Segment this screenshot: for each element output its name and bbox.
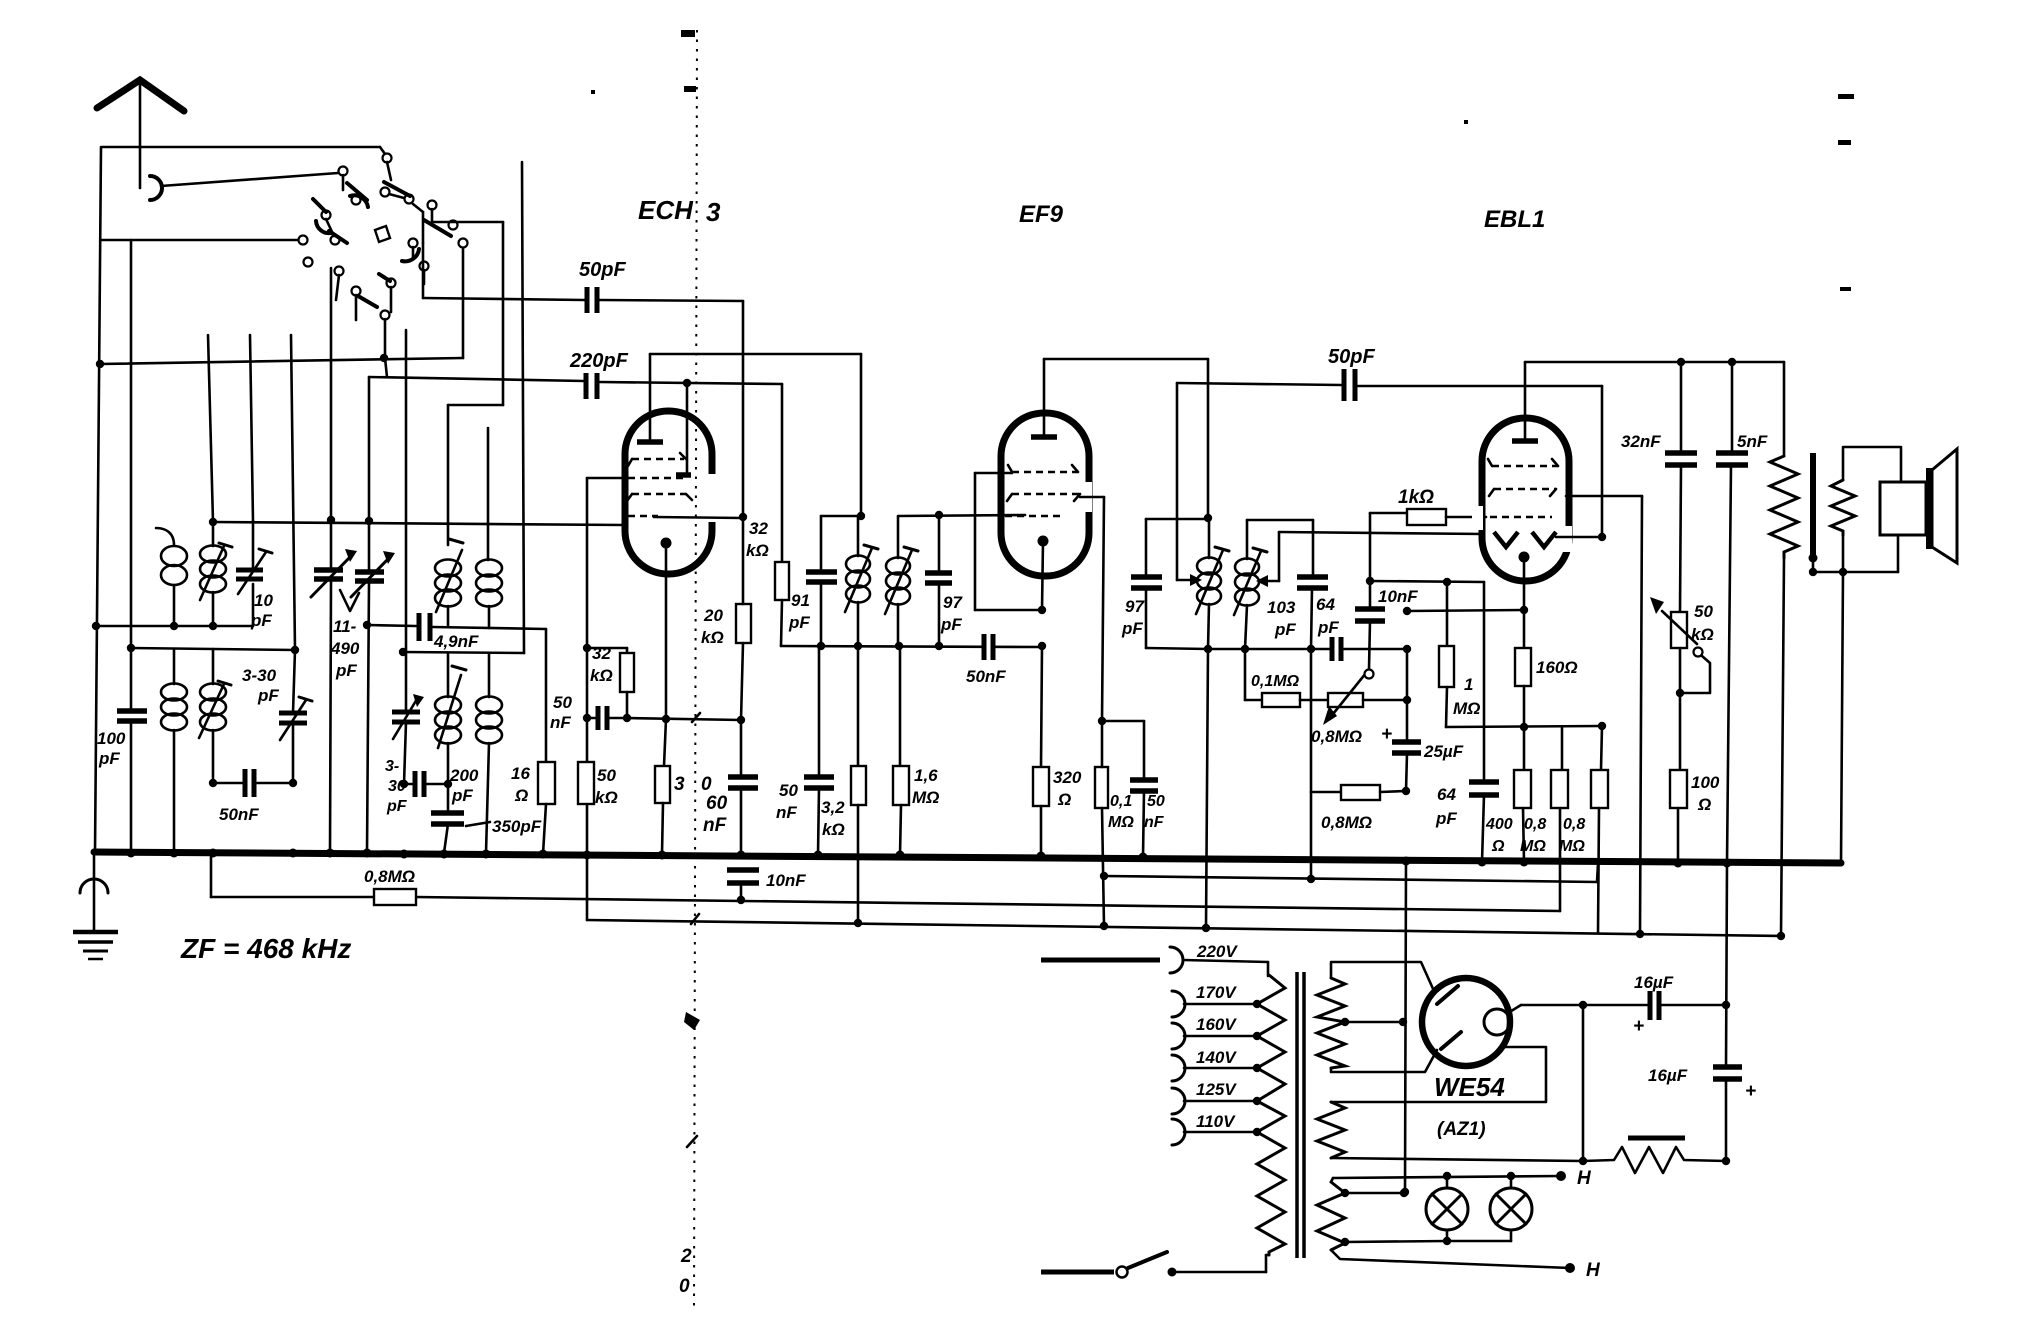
resistor 0,1M AF (1262, 693, 1328, 707)
label 320 Ohm EF9 (1053, 768, 1082, 809)
svg-text:+: + (1381, 724, 1392, 745)
svg-text:0,8: 0,8 (1563, 816, 1585, 833)
potentiometer 50k tone (1650, 597, 1710, 770)
wire: WE54 second anode loop (1331, 1047, 1546, 1102)
wire y=240 (101, 239, 298, 242)
wire: grid2 return (587, 478, 628, 855)
label 50nF IF1 bypass (776, 781, 798, 822)
svg-text:103: 103 (1267, 598, 1296, 617)
svg-text:50: 50 (553, 693, 572, 712)
wire y=364 (100, 358, 463, 364)
svg-text:50: 50 (779, 781, 798, 800)
node (1401, 1188, 1409, 1196)
svg-text:160Ω: 160Ω (1536, 658, 1578, 677)
node (1636, 930, 1644, 938)
svg-text:3-: 3- (385, 758, 399, 775)
svg-text:97: 97 (1125, 597, 1145, 616)
label 20kOhm (701, 606, 724, 647)
svg-text:pF: pF (98, 749, 120, 768)
label 32kOhm screen (590, 644, 613, 685)
node (399, 648, 407, 656)
wire: AVC rail R1 (211, 855, 1560, 911)
wire: 16 ohm feed (545, 629, 548, 762)
label 0,8MOhm bias2 (1559, 816, 1585, 855)
label 91pF (788, 591, 810, 632)
svg-text:+: + (1745, 1081, 1756, 1102)
wire: band switch vertical to 3-30pF trimmer (291, 335, 295, 650)
label 64pF tone (1435, 785, 1457, 828)
node (1520, 723, 1528, 731)
capacitor 5nF (1716, 362, 1748, 863)
capacitor 10nF AVC (727, 870, 759, 900)
label 32kOhm (746, 519, 769, 560)
wire: rectifier output vertical (1582, 1005, 1585, 1161)
svg-text:3-30: 3-30 (242, 666, 277, 685)
node (1204, 645, 1212, 653)
label 64pF coupling (1316, 595, 1339, 637)
label 0,8MOhm bias1 (1520, 816, 1546, 855)
node (739, 513, 747, 521)
capacitor 64pF coupling (1332, 637, 1407, 661)
node (1202, 924, 1210, 932)
IF transformer 2 secondary coil (1234, 520, 1267, 649)
speaker (1880, 449, 1957, 563)
label 50kOhm tone (1691, 602, 1714, 644)
node (1098, 717, 1106, 725)
node (444, 780, 452, 788)
switch contact circle (299, 236, 308, 245)
node (327, 516, 335, 524)
node (1403, 696, 1411, 704)
node (1722, 1157, 1730, 1165)
resistor 320 Ohm EF9 cathode (1033, 646, 1049, 856)
svg-text:0,1MΩ: 0,1MΩ (1251, 673, 1300, 690)
wire: lower coil top line y=649 (131, 648, 295, 650)
node (583, 714, 591, 722)
wire: screen rail R-A (1104, 864, 1598, 882)
capacitor 97pF IF2 (1131, 519, 1208, 649)
label 103pF (1267, 598, 1296, 639)
svg-text:MΩ: MΩ (1453, 699, 1480, 718)
svg-text:100: 100 (97, 729, 126, 748)
svg-text:1: 1 (1464, 675, 1473, 694)
svg-text:320: 320 (1053, 768, 1082, 787)
svg-text:110V: 110V (1196, 1112, 1236, 1131)
capacitor 350pF (431, 784, 490, 853)
wire: 50pF feed from switch (422, 243, 425, 298)
wire: switch feed up to contact (462, 247, 465, 358)
svg-text:140V: 140V (1196, 1048, 1237, 1067)
svg-text:MΩ: MΩ (1108, 814, 1134, 831)
svg-text:pF: pF (940, 615, 962, 634)
svg-text:10: 10 (254, 591, 273, 610)
mains tap 140V (1172, 1055, 1261, 1081)
page fold dotted line (679, 30, 700, 1310)
capacitor 97pF (IF1 secondary) (925, 515, 952, 646)
svg-text:400: 400 (1485, 816, 1513, 833)
wire: band switch vertical to antenna coil (208, 335, 213, 522)
svg-text:pF: pF (386, 798, 408, 815)
IF transformer 1 primary coil (845, 516, 878, 646)
label 200pF (449, 766, 479, 805)
bus junction nodes (127, 849, 1732, 868)
svg-text:16µF: 16µF (1648, 1066, 1688, 1085)
svg-text:0,8: 0,8 (1524, 816, 1546, 833)
antenna coil secondary (tuned) (200, 522, 232, 626)
svg-text:pF: pF (257, 686, 279, 705)
svg-text:pF: pF (1317, 618, 1339, 637)
resistor 1M (1439, 582, 1454, 727)
svg-text:10nF: 10nF (766, 871, 806, 890)
capacitor 220pF (369, 373, 782, 399)
wire: vertical x=131 to 100pF (130, 240, 133, 711)
svg-text:220pF: 220pF (569, 350, 629, 372)
svg-text:4,9nF: 4,9nF (433, 632, 479, 651)
svg-text:WE54: WE54 (1434, 1072, 1505, 1102)
wire: ECH3 grid1 top cap to IF (650, 354, 861, 516)
svg-text:nF: nF (703, 815, 728, 836)
trimmer 10pF (236, 521, 272, 594)
node (1728, 358, 1736, 366)
resistor 3.2k (851, 646, 866, 923)
svg-text:11-: 11- (333, 617, 357, 636)
oscillator coil upper-left (435, 539, 463, 627)
capacitor 25uF (1392, 649, 1421, 791)
mains tap 110V (1172, 1119, 1261, 1145)
resistor 160 Ohm (1515, 610, 1531, 727)
svg-text:50nF: 50nF (219, 805, 259, 824)
label 50kOhm (595, 766, 618, 807)
svg-text:nF: nF (776, 803, 797, 822)
svg-text:50nF: 50nF (966, 667, 1006, 686)
svg-text:nF: nF (1144, 814, 1165, 831)
tube ECH3 (625, 354, 743, 718)
node (1100, 922, 1108, 930)
svg-text:kΩ: kΩ (822, 820, 845, 839)
svg-text:0: 0 (701, 774, 712, 795)
resistor 32k screen (587, 648, 634, 718)
trimmer 3-30pF oscillator (392, 330, 424, 784)
svg-text:97: 97 (943, 593, 963, 612)
svg-text:ECH: ECH (638, 195, 694, 225)
svg-text:50pF: 50pF (1328, 346, 1375, 368)
wire: band switch vertical to 10pF trimmer (250, 335, 253, 521)
wire: HT centre tap to ground bus (1405, 861, 1406, 1192)
node (737, 896, 745, 904)
svg-text:64: 64 (1316, 595, 1335, 614)
capacitor 91pF (806, 516, 861, 646)
svg-text:1kΩ: 1kΩ (1398, 487, 1434, 508)
pilot lamp 1 (1426, 1172, 1468, 1245)
svg-text:50: 50 (1694, 602, 1713, 621)
wire: B+ top line y=362 (1525, 362, 1784, 456)
node (96, 360, 104, 368)
node (1579, 1157, 1587, 1165)
capacitor 50nF IF1 bypass (804, 646, 834, 855)
output transformer core (1809, 453, 1818, 563)
resistor 0,8M bias 1 (1551, 727, 1568, 911)
node (854, 919, 862, 927)
node (363, 621, 371, 629)
capacitor 64pF tone (1469, 582, 1499, 862)
svg-text:0,8MΩ: 0,8MΩ (1321, 813, 1372, 832)
resistor 50k (578, 762, 594, 804)
node (400, 780, 408, 788)
svg-text:160V: 160V (1196, 1015, 1237, 1034)
oscillator coil upper-right (476, 428, 502, 628)
capacitor 50nF screen bypass (1102, 721, 1158, 857)
label 1MOhm (1453, 675, 1480, 718)
capacitor 10nF AF (1355, 513, 1385, 669)
mains tap 160V (1172, 1023, 1261, 1049)
svg-text:10nF: 10nF (1378, 587, 1418, 606)
label 10pF (250, 591, 273, 630)
svg-text:H: H (1586, 1260, 1601, 1281)
svg-text:50pF: 50pF (579, 259, 626, 281)
tuning gang capacitor C1 (11-490pF) (311, 268, 357, 853)
svg-text:5nF: 5nF (1737, 432, 1768, 451)
tuning gang capacitor C2 (11-490pF) (351, 377, 395, 853)
svg-text:(AZ1): (AZ1) (1437, 1119, 1486, 1140)
wire: diode tap to EBL1 (1256, 532, 1484, 587)
rectifier tube WE54 (1422, 978, 1510, 1066)
node (1809, 568, 1817, 576)
mains switch (1041, 1252, 1269, 1278)
svg-text:3: 3 (706, 197, 721, 227)
switch contact circle (339, 167, 348, 176)
switch contact circle (459, 239, 468, 248)
wire: AVC bias line y=611 (1407, 610, 1524, 611)
svg-text:16µF: 16µF (1634, 973, 1674, 992)
svg-text:Ω: Ω (514, 786, 528, 805)
node (1839, 568, 1847, 576)
svg-text:490: 490 (330, 639, 360, 658)
label 320 (674, 774, 712, 795)
svg-text:170V: 170V (1196, 983, 1237, 1002)
oscillator coil lower-right (476, 653, 502, 853)
svg-text:0,8MΩ: 0,8MΩ (1311, 727, 1362, 746)
node (1402, 787, 1410, 795)
svg-text:50: 50 (597, 766, 616, 785)
svg-text:3: 3 (674, 774, 685, 795)
power transformer core (1297, 972, 1304, 1258)
svg-text:Ω: Ω (1697, 795, 1711, 814)
node (289, 779, 297, 787)
wire: cathode bias line y=727 (1446, 726, 1602, 727)
antenna coil primary (156, 528, 187, 626)
svg-text:kΩ: kΩ (746, 541, 769, 560)
node (209, 779, 217, 787)
node (1579, 1001, 1587, 1009)
node (1598, 533, 1606, 541)
wire: EBL1 grid2 to rail (1566, 496, 1642, 934)
svg-text:60: 60 (706, 793, 728, 814)
node (817, 642, 825, 650)
wire: antenna top line y=147 (102, 147, 385, 154)
svg-text:350pF: 350pF (492, 817, 542, 836)
power transformer rectifier filament winding (1317, 1102, 1583, 1161)
svg-text:50: 50 (1147, 793, 1165, 810)
capacitor 4.9nF (419, 613, 546, 641)
svg-text:200: 200 (449, 766, 479, 785)
node (380, 354, 388, 362)
pilot lamp 2 (1447, 1172, 1532, 1241)
svg-text:pF: pF (451, 786, 473, 805)
capacitor 103pF (1297, 577, 1328, 649)
label 60nF (703, 793, 728, 836)
node (1777, 932, 1785, 940)
label 3-30pF osc (385, 758, 408, 815)
wire: EF9 grid2 (975, 473, 1042, 610)
output transformer primary (1770, 456, 1798, 936)
node (1204, 514, 1212, 522)
svg-text:H: H (1577, 1168, 1592, 1189)
resistor 0,8M AVC filter (374, 889, 416, 905)
wire y=652 oscillator secondary top (403, 652, 524, 653)
switch contact circle (383, 154, 392, 163)
node (127, 644, 135, 652)
node (623, 714, 631, 722)
wire: bias rail R2 (587, 855, 1781, 936)
power transformer HT secondary (1317, 962, 1437, 1072)
capacitor 50nF (213, 769, 293, 797)
node (170, 622, 178, 630)
wire: IF2 secondary top bracket (1247, 520, 1313, 577)
node (737, 716, 745, 724)
node (92, 622, 100, 630)
wire: IF1 secondary top to EF9 grid (898, 515, 1025, 516)
coupling coil lower left (161, 649, 187, 853)
node (854, 642, 862, 650)
capacitor 32nF (1665, 362, 1697, 612)
svg-text:EBL1: EBL1 (1484, 206, 1545, 233)
resistor 20k (736, 518, 751, 720)
svg-text:91: 91 (791, 591, 810, 610)
capacitor 16uF second (1713, 863, 1742, 1161)
wire: left rail x=95 (95, 147, 101, 852)
tube EBL1 (1472, 362, 1572, 610)
node (1100, 872, 1108, 880)
wire: IF2 feed vertical x=1177 (1177, 383, 1202, 586)
wire: IF2 primary B+ drop (1206, 649, 1208, 928)
svg-text:MΩ: MΩ (1520, 838, 1546, 855)
mains tap 170V (1172, 991, 1261, 1017)
svg-text:kΩ: kΩ (595, 788, 618, 807)
trimmer 3-30pF (279, 650, 312, 783)
node (1520, 606, 1528, 614)
svg-text:32: 32 (592, 644, 611, 663)
node (1403, 645, 1411, 653)
node (1722, 1001, 1730, 1009)
tuned coil lower (with core arrow) (199, 649, 231, 783)
terminal H bottom (1565, 1260, 1601, 1281)
resistor 16 Ohm (538, 762, 555, 854)
resistor 0,8M bias 2 (1591, 726, 1608, 933)
label 1,6MOhm (912, 766, 939, 807)
node (1443, 578, 1451, 586)
svg-text:ZF = 468 kHz: ZF = 468 kHz (180, 933, 351, 964)
wire y=582 (1370, 581, 1484, 582)
svg-text:Ω: Ω (1491, 838, 1505, 855)
node (683, 379, 691, 387)
wire: 220V mains input (1041, 947, 1268, 976)
wire: 4.9nF line (367, 625, 416, 626)
capacitor 200pF (406, 771, 448, 797)
svg-text:kΩ: kΩ (590, 666, 613, 685)
svg-text:2: 2 (680, 1246, 692, 1267)
svg-text:1,6: 1,6 (914, 766, 938, 785)
node (857, 512, 865, 520)
label 100pF (97, 729, 126, 768)
label 11-490pF (330, 617, 360, 680)
node (1307, 645, 1315, 653)
svg-text:+: + (1633, 1016, 1644, 1037)
node (1038, 606, 1046, 614)
wire: EF9 anode/screen drop (1080, 497, 1104, 721)
wire: grid line y=522 to ECH3 (213, 522, 625, 525)
capacitor 50nF EF9 cathode (984, 634, 993, 660)
label 3-30 pF (242, 666, 279, 705)
resistor 320 Ohm cathode (655, 719, 670, 854)
node (1241, 645, 1249, 653)
antenna (97, 80, 184, 200)
wire: coupling to band switch y=186 (161, 173, 338, 186)
switch contact circle (449, 221, 458, 230)
resistor 1k EBL1 grid stopper (1370, 509, 1486, 525)
svg-text:20: 20 (703, 606, 723, 625)
resistor 32k (osc anode) (775, 384, 789, 646)
label 97pF (940, 593, 963, 634)
resistor 400 Ohm (1514, 727, 1531, 862)
label 0,1MOhm (1108, 793, 1134, 831)
output transformer secondary (1831, 447, 1901, 572)
svg-text:pF: pF (788, 613, 810, 632)
capacitor 50nF screen (587, 706, 627, 730)
node (1366, 577, 1374, 585)
capacitor 50pF (oscillator feedback) (423, 287, 743, 517)
svg-text:pF: pF (250, 611, 272, 630)
wire: EF9 top cap to IF2 (1044, 359, 1208, 518)
wire: detector line y=649 (1208, 648, 1329, 651)
svg-text:MΩ: MΩ (1559, 838, 1585, 855)
svg-text:125V: 125V (1196, 1080, 1237, 1099)
wire: WE54 cathode output (1508, 1005, 1583, 1013)
node (291, 646, 299, 654)
svg-text:pF: pF (1121, 619, 1143, 638)
wire y=626 (96, 625, 253, 628)
band switch lever (424, 220, 451, 236)
node (209, 622, 217, 630)
node (1677, 358, 1685, 366)
node (583, 644, 591, 652)
svg-text:MΩ: MΩ (912, 788, 939, 807)
ground bus (94, 852, 1841, 863)
potentiometer 0,8M volume (1323, 670, 1407, 726)
svg-text:EF9: EF9 (1019, 201, 1064, 228)
svg-text:16: 16 (511, 764, 530, 783)
resistor 0,8M AVC (1311, 649, 1406, 879)
svg-text:pF: pF (335, 661, 357, 680)
wire: 10pF trimmer drop (252, 584, 255, 626)
wire: cathode line y=719 (627, 718, 741, 720)
power transformer heater winding (1317, 1176, 1570, 1268)
IF transformer 1 secondary coil (885, 517, 918, 646)
wire: oscillator coil feed (448, 222, 503, 545)
svg-text:25µF: 25µF (1423, 742, 1464, 761)
resistor 1.6M (893, 647, 909, 855)
node (1307, 875, 1315, 883)
svg-text:64: 64 (1437, 785, 1456, 804)
